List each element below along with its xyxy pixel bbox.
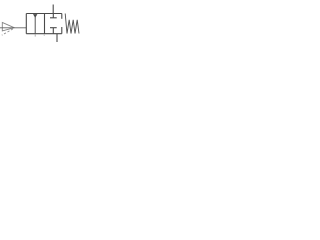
spring	[65, 14, 79, 34]
arrow flow path left square	[34, 17, 36, 34]
pilot triangle	[2, 23, 14, 31]
wire port bottom right	[56, 34, 58, 42]
blocked port T bottom	[50, 27, 57, 29]
valve position divider	[44, 14, 46, 34]
wire pilot horizontal	[0, 27, 26, 29]
wire port bottom left faint	[34, 34, 36, 37]
valve body box left edge	[25, 14, 27, 34]
wire divider tail faint	[43, 34, 45, 36]
valve body box bottom edge	[26, 33, 62, 35]
blocked port T top	[52, 14, 54, 18]
valve body box right edge upper	[61, 14, 63, 19]
valve body box right edge lower	[61, 27, 63, 34]
wire dashed pilot line	[2, 29, 13, 35]
wire port 2 top	[52, 5, 54, 14]
valve body box top edge	[26, 13, 62, 15]
